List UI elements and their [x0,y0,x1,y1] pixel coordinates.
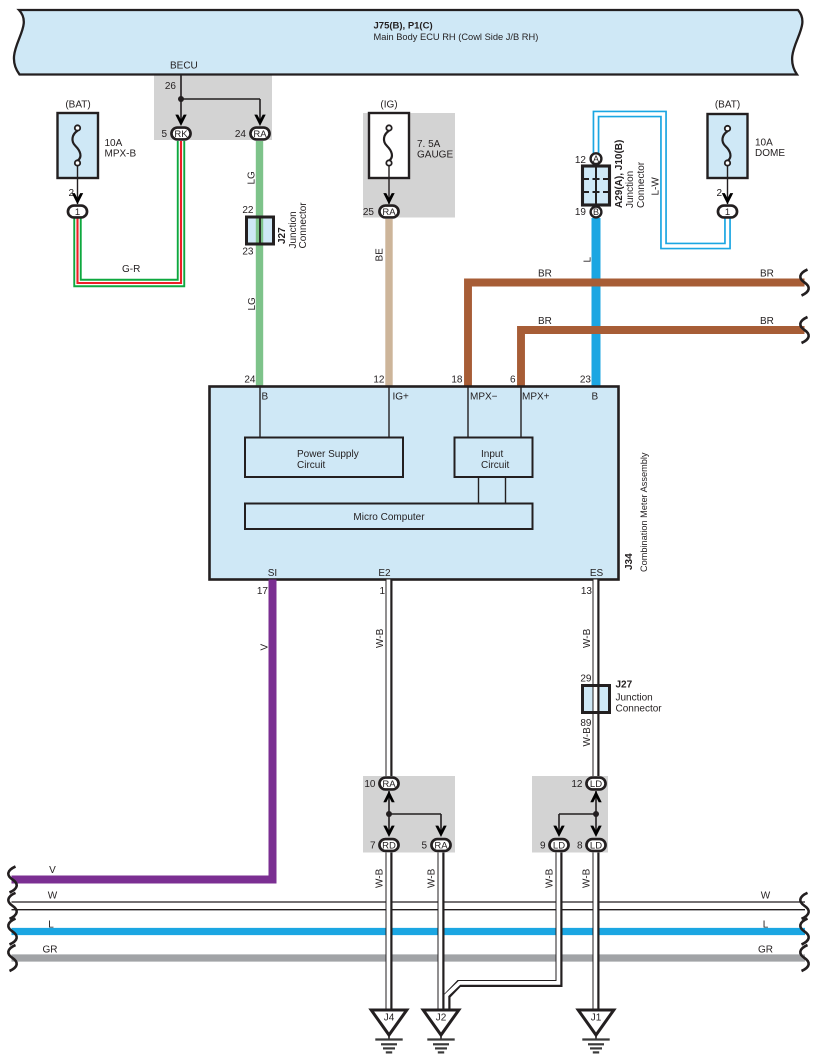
wire branch left box [389,813,441,815]
svg-text:B: B [262,392,269,403]
svg-text:LD: LD [590,779,602,790]
svg-text:9: 9 [540,841,546,852]
svg-text:B: B [592,392,599,403]
svg-text:J27: J27 [277,227,288,244]
svg-text:BE: BE [375,248,386,262]
svg-text:25: 25 [363,207,375,218]
wire W-B from ES pin 13 [593,580,600,777]
svg-text:Junction: Junction [616,693,653,704]
gray shaded box BECU connector area [154,75,272,141]
gray shaded box IG fuse area [363,113,455,218]
bus wire GR [12,954,806,961]
node junction dot [178,96,184,102]
svg-text:W-B: W-B [545,868,556,888]
svg-text:G-R: G-R [122,264,140,275]
power supply circuit block [245,438,403,478]
svg-text:J27: J27 [616,680,633,691]
combination meter assembly J34 box [210,387,619,580]
svg-text:L-W: L-W [651,177,662,196]
svg-text:22: 22 [242,205,254,216]
connector oval pin 24 RA [250,128,269,140]
svg-text:BR: BR [760,269,774,280]
svg-text:DOME: DOME [755,148,785,159]
connector oval pin 7 RD [379,839,398,851]
wire L-W (double blue) [596,114,728,246]
break symbol BR1 [800,270,808,296]
svg-text:Power Supply: Power Supply [297,449,359,460]
node J75(B), P1(C) Main Body ECU banner [14,10,802,75]
svg-text:J1: J1 [591,1013,602,1024]
svg-text:1: 1 [75,207,80,218]
wire W-B pin 8 to ground J1 [593,853,600,1011]
wire branch to RA [181,98,260,100]
svg-text:(BAT): (BAT) [715,100,740,111]
svg-text:V: V [49,865,56,876]
svg-text:18: 18 [451,374,463,385]
svg-text:J2: J2 [436,1013,447,1024]
svg-text:17: 17 [257,586,269,597]
connector oval pin 10 RA with up arrow [388,791,390,814]
svg-text:GR: GR [43,944,58,955]
svg-text:BECU: BECU [170,61,198,72]
svg-text:(BAT): (BAT) [65,100,90,111]
svg-text:BR: BR [760,316,774,327]
node junction dot left [386,811,392,817]
wire down to RA with arrow [259,99,261,121]
svg-text:GAUGE: GAUGE [417,150,453,161]
svg-text:J34: J34 [624,553,635,570]
svg-text:GR: GR [758,944,773,955]
svg-text:RA: RA [253,129,267,140]
svg-text:L: L [763,919,769,930]
svg-text:E2: E2 [378,568,391,579]
svg-text:MPX-B: MPX-B [105,149,137,160]
svg-text:7: 7 [370,841,376,852]
wire V [12,580,273,880]
wire G-R [78,141,182,283]
ground J1 [578,1010,614,1052]
svg-text:W-B: W-B [427,868,438,888]
svg-text:J75(B), P1(C): J75(B), P1(C) [374,20,433,31]
svg-text:L: L [48,919,54,930]
micro computer block [245,504,533,530]
wire W-B pin 7 to ground J4 [386,853,393,1011]
connector oval pin 1 (DOME) [718,206,737,218]
svg-text:LG: LG [247,171,258,185]
svg-text:19: 19 [575,207,587,218]
wire BE [385,219,392,387]
svg-text:W-B: W-B [582,868,593,888]
svg-text:LD: LD [590,841,602,852]
svg-text:B: B [593,207,599,217]
svg-text:8: 8 [577,841,583,852]
svg-text:5: 5 [421,841,427,852]
svg-text:12: 12 [575,155,587,166]
connector oval pin 12 LD with up arrow [595,791,597,814]
svg-text:10A: 10A [755,138,773,149]
svg-text:W: W [761,891,771,902]
svg-text:BR: BR [538,316,552,327]
svg-text:BR: BR [538,269,552,280]
break symbol BR2 [800,317,808,343]
svg-text:MPX−: MPX− [470,392,498,403]
svg-text:W-B: W-B [375,628,386,648]
svg-text:1: 1 [725,207,730,218]
node junction dot right [593,811,599,817]
fuse 10A MPX-B [58,113,99,178]
wire BR (MPX+) [521,330,805,387]
wire W-B pin 5 to ground J2 [438,853,445,1011]
bus wire L [12,928,806,935]
bus wire W [12,901,806,903]
wire BR (MPX-) [468,283,805,387]
svg-text:RA: RA [382,207,396,218]
svg-text:1: 1 [379,586,385,597]
svg-text:12: 12 [571,779,583,790]
svg-text:6: 6 [510,374,516,385]
svg-text:RA: RA [382,779,396,790]
wire from BECU pin 26 [180,75,182,100]
connector oval pin 9 LD [549,839,568,851]
wire fuse to pin 2 arrow [727,166,729,205]
break symbol V [8,867,16,893]
junction connector A29(A), J10(B) [583,166,610,205]
svg-text:W-B: W-B [582,727,593,747]
svg-text:Input: Input [481,449,503,460]
svg-text:Main Body ECU RH (Cowl Side J/: Main Body ECU RH (Cowl Side J/B RH) [374,32,539,42]
wire W-B from E2 pin 1 [386,580,393,777]
svg-text:LD: LD [553,841,565,852]
junction connector J27 (top) [247,217,274,244]
svg-text:A: A [593,154,599,164]
junction connector J27 (lower) [583,686,610,713]
wire W-B pin 9 to ground J2 (bent) [447,853,559,1011]
svg-text:L: L [583,257,594,263]
internal wire B to power supply [259,387,261,438]
svg-text:MPX+: MPX+ [522,392,550,403]
connector oval pin 5 RA [431,839,450,851]
svg-text:23: 23 [242,247,254,258]
ground J2 [423,1010,459,1052]
svg-text:Circuit: Circuit [297,460,326,471]
gray shaded box relay block lower-right [532,776,608,853]
connector oval pin 8 LD [586,839,605,851]
internal wire MPX+ to input circuit [520,387,522,438]
svg-text:26: 26 [165,81,177,92]
break symbols left buses [8,893,16,919]
svg-text:RK: RK [174,129,188,140]
svg-text:ES: ES [590,568,604,579]
svg-text:LG: LG [247,297,258,311]
svg-text:RD: RD [382,841,396,852]
svg-text:W: W [48,891,58,902]
svg-text:2: 2 [716,188,722,199]
wire LG [256,141,263,387]
connector oval pin 1 (MPX-B) [68,206,87,218]
svg-text:13: 13 [581,586,593,597]
svg-text:12: 12 [373,374,385,385]
wire L [592,218,601,387]
svg-text:Connector: Connector [636,161,647,208]
svg-text:24: 24 [244,374,256,385]
svg-text:W-B: W-B [375,868,386,888]
svg-text:Junction: Junction [625,171,636,208]
internal wire MPX- to input circuit [467,387,469,438]
svg-text:SI: SI [268,568,277,579]
fuse 7.5A GAUGE [369,113,409,178]
pin A circle [591,153,602,164]
internal wires input to micro computer [478,477,480,504]
svg-text:23: 23 [580,374,592,385]
connector oval pin 25 RA [379,206,398,218]
wire fuse to pin 25 arrow [388,166,390,205]
input circuit block [455,438,533,478]
svg-text:IG+: IG+ [393,392,410,403]
wire fuse to pin 2 arrow [77,166,79,205]
pin B circle [591,207,602,218]
svg-text:10A: 10A [105,138,123,149]
wire branch right box [559,813,596,815]
break symbols right buses [800,893,808,919]
svg-text:Combination Meter Assembly: Combination Meter Assembly [639,452,649,572]
ground J4 [371,1010,407,1052]
svg-text:7. 5A: 7. 5A [417,139,441,150]
svg-text:V: V [260,644,271,651]
svg-text:A29(A), J10(B): A29(A), J10(B) [614,140,625,208]
svg-text:24: 24 [235,129,247,140]
internal wire IG+ to power supply [388,387,390,438]
fuse 10A DOME [708,114,748,178]
svg-text:J4: J4 [384,1013,395,1024]
gray shaded box relay block lower-left [363,776,455,853]
svg-text:5: 5 [161,129,167,140]
svg-text:RA: RA [434,841,448,852]
svg-text:Micro Computer: Micro Computer [353,512,425,523]
svg-text:Circuit: Circuit [481,460,510,471]
svg-text:Connector: Connector [298,202,309,249]
svg-text:(IG): (IG) [380,100,397,111]
svg-text:29: 29 [580,674,592,685]
svg-text:W-B: W-B [582,628,593,648]
wire down to RK with arrow [180,99,182,121]
svg-text:Connector: Connector [616,704,663,715]
connector oval pin 5 RK [171,128,190,140]
svg-text:10: 10 [364,779,376,790]
